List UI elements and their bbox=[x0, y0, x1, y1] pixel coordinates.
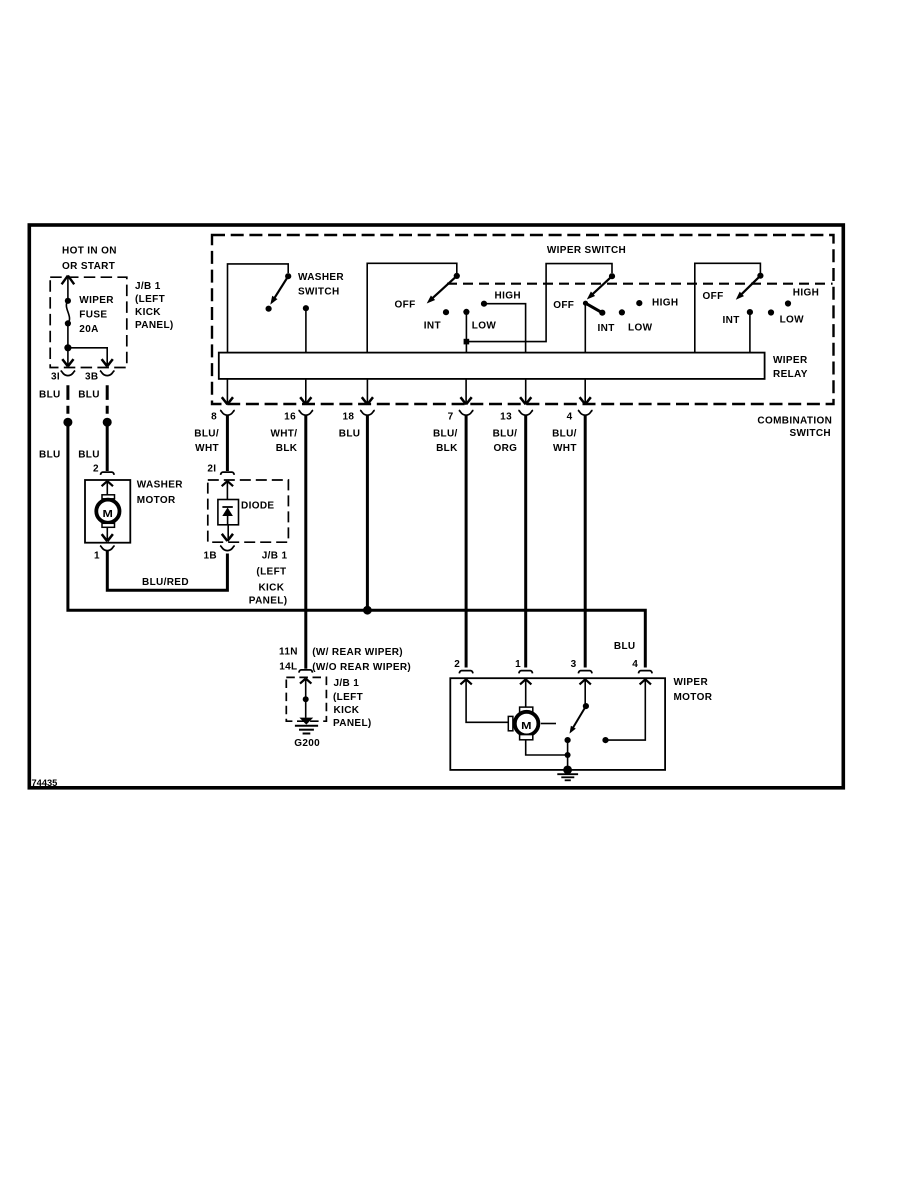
contact HIGH (switch 2) bbox=[785, 300, 791, 306]
svg-text:WASHER: WASHER bbox=[298, 272, 344, 283]
park switch common contact bbox=[583, 703, 589, 709]
connector diode 1B bbox=[220, 546, 235, 551]
svg-text:3: 3 bbox=[571, 659, 577, 670]
arrow down washer motor pin 1 exit bbox=[102, 534, 113, 541]
diode J/B 1 dashed box bbox=[208, 480, 289, 542]
svg-text:MOTOR: MOTOR bbox=[674, 692, 713, 703]
svg-text:18: 18 bbox=[342, 412, 354, 423]
svg-text:74435: 74435 bbox=[32, 778, 58, 788]
svg-text:WHT: WHT bbox=[553, 443, 577, 454]
svg-text:3I: 3I bbox=[51, 371, 60, 382]
svg-text:PANEL): PANEL) bbox=[333, 718, 372, 729]
arrow down pin 16 bbox=[300, 397, 311, 404]
wiper switch 2 blade bbox=[736, 276, 761, 300]
arrow up washer motor pin 2 entry bbox=[102, 481, 113, 486]
washer switch frame wire bbox=[228, 264, 289, 353]
svg-text:SWITCH: SWITCH bbox=[789, 428, 831, 439]
wiper switch 2 common contact bbox=[757, 273, 763, 279]
arrow up wiper motor pin 4 bbox=[640, 679, 651, 684]
contact INT (switch 1) bbox=[443, 309, 449, 315]
WIPER RELAY label bbox=[773, 355, 808, 380]
wire inside washer motor top bbox=[106, 481, 108, 495]
fuse WIPER FUSE 20A bbox=[65, 295, 114, 335]
motor shaft link to park switch bbox=[541, 723, 556, 725]
arrow down pin 4 bbox=[580, 397, 591, 404]
svg-text:INT: INT bbox=[598, 323, 615, 334]
svg-text:J/B 1: J/B 1 bbox=[262, 551, 288, 562]
svg-text:OFF: OFF bbox=[395, 300, 416, 311]
wire pin 4 to park contact B bbox=[606, 679, 646, 740]
svg-text:8: 8 bbox=[211, 412, 217, 423]
COMBINATION SWITCH label bbox=[757, 416, 832, 440]
svg-text:PANEL): PANEL) bbox=[135, 320, 174, 331]
wire pin 1 to motor top brush bbox=[525, 679, 527, 707]
diode symbol bbox=[222, 507, 233, 525]
svg-text:WHT/: WHT/ bbox=[270, 428, 297, 439]
wire inside washer motor bottom bbox=[106, 527, 108, 540]
connector pin 18 bbox=[360, 410, 375, 415]
svg-text:KICK: KICK bbox=[135, 307, 161, 318]
WIPER MOTOR label bbox=[674, 677, 713, 703]
svg-text:OFF: OFF bbox=[703, 291, 724, 302]
svg-text:OFF: OFF bbox=[553, 300, 574, 311]
connector wiper motor pin 3 bbox=[578, 671, 592, 674]
contact HIGH (switch 1) bbox=[481, 301, 487, 307]
svg-text:BLU/: BLU/ bbox=[552, 428, 577, 439]
arrow up to HOT feed bbox=[62, 276, 75, 285]
contact INT (relay switch) bbox=[599, 310, 605, 316]
wire pin 4 BLU/WHT down to wiper motor 3 bbox=[584, 415, 587, 668]
node LOW junction bbox=[464, 339, 470, 345]
svg-text:BLU: BLU bbox=[78, 389, 100, 400]
connector pin 13 bbox=[518, 410, 533, 415]
wire fuse to node split bbox=[67, 323, 69, 366]
wiper motor M2 bottom brush bbox=[520, 735, 533, 740]
node BLU feed junction bbox=[363, 606, 372, 615]
washer motor box bbox=[85, 480, 130, 543]
arrow down pin 18 bbox=[362, 397, 373, 404]
svg-text:LOW: LOW bbox=[472, 321, 497, 332]
svg-text:BLK: BLK bbox=[276, 443, 298, 454]
svg-text:HIGH: HIGH bbox=[495, 291, 521, 302]
wiper switch 1 blade bbox=[427, 276, 457, 304]
wiper switch 2 frame wire bbox=[695, 263, 761, 352]
svg-text:WIPER SWITCH: WIPER SWITCH bbox=[547, 245, 626, 256]
J/B 1 label (ground) bbox=[333, 678, 372, 729]
washer switch common contact bbox=[285, 273, 291, 279]
svg-text:KICK: KICK bbox=[334, 705, 360, 716]
wire pin 7 BLU/BLK down to wiper motor 2 bbox=[465, 415, 468, 668]
relay int switch pivot blade to INT bbox=[583, 301, 602, 313]
svg-text:4: 4 bbox=[567, 412, 573, 423]
node ground bus junction bbox=[565, 752, 571, 758]
svg-text:RELAY: RELAY bbox=[773, 369, 808, 380]
wire BLU/RED washer motor to diode bbox=[107, 550, 227, 590]
svg-text:BLU/: BLU/ bbox=[194, 428, 219, 439]
motor M2 armature bbox=[515, 712, 539, 736]
svg-text:WIPER: WIPER bbox=[773, 355, 808, 366]
arrow down pin 3B bbox=[102, 359, 113, 366]
wiper switch 1 frame wire bbox=[367, 263, 457, 352]
svg-text:16: 16 bbox=[284, 412, 296, 423]
svg-text:WASHER: WASHER bbox=[137, 480, 183, 491]
splice node left bbox=[63, 418, 72, 427]
wire LOW contact to relay bar bbox=[465, 312, 467, 353]
svg-text:DIODE: DIODE bbox=[241, 500, 274, 511]
contact LOW (switch 1) bbox=[463, 309, 469, 315]
washer switch blade bbox=[270, 276, 288, 304]
svg-text:OR START: OR START bbox=[62, 261, 115, 272]
wire 3I dashed drop bbox=[66, 385, 69, 414]
node HOT IN ON label bbox=[62, 246, 117, 272]
svg-text:BLU/: BLU/ bbox=[433, 428, 458, 439]
wiper switch 1 common contact bbox=[454, 273, 460, 279]
arrow down diode 1B exit bbox=[222, 534, 233, 541]
connector wiper motor pin 4 bbox=[639, 671, 653, 674]
arrow up wiper motor pin 2 bbox=[460, 679, 471, 684]
svg-text:BLU: BLU bbox=[78, 449, 100, 460]
svg-text:SWITCH: SWITCH bbox=[298, 287, 340, 298]
wire pin 2 to motor left brush bbox=[466, 679, 508, 722]
svg-text:(LEFT: (LEFT bbox=[256, 566, 286, 577]
svg-text:J/B 1: J/B 1 bbox=[334, 678, 360, 689]
connector diode 2I bbox=[221, 472, 235, 475]
svg-text:BLU: BLU bbox=[339, 428, 361, 439]
washer switch output contact bbox=[303, 305, 309, 311]
wire washer switch contact to relay bar bbox=[305, 308, 307, 352]
wire relay int switch to LOW junction bbox=[466, 264, 612, 342]
wire label BLU/BLK (pin 7) bbox=[433, 428, 458, 454]
wire pin 13 BLU/ORG down to wiper motor 1 bbox=[524, 415, 527, 668]
svg-text:FUSE: FUSE bbox=[79, 310, 107, 321]
contact HIGH (relay switch) bbox=[636, 300, 642, 306]
relay bar output stems and arrows: pins 8,16,18,7,13,4 bbox=[227, 379, 585, 404]
wiper relay bar bbox=[219, 353, 765, 379]
svg-text:(LEFT: (LEFT bbox=[135, 294, 165, 305]
svg-text:(LEFT: (LEFT bbox=[333, 692, 363, 703]
washer switch off contact bbox=[266, 306, 272, 312]
svg-text:3B: 3B bbox=[85, 371, 98, 382]
svg-text:LOW: LOW bbox=[628, 323, 653, 334]
connector pin 3I bbox=[61, 371, 76, 376]
svg-text:ORG: ORG bbox=[493, 443, 517, 454]
svg-text:PANEL): PANEL) bbox=[249, 596, 288, 607]
wire INT contact to relay bar bbox=[749, 312, 751, 353]
wire motor bottom brush to ground bus bbox=[526, 740, 568, 755]
WASHER MOTOR label bbox=[137, 480, 183, 506]
wire inside ground box bbox=[305, 678, 307, 717]
connector wiper motor pin 1 bbox=[519, 671, 533, 674]
svg-text:J/B 1: J/B 1 bbox=[135, 281, 161, 292]
arrow up diode 2I entry bbox=[222, 481, 233, 486]
svg-text:14L: 14L bbox=[279, 662, 297, 673]
wire fuse feed bbox=[67, 278, 69, 301]
wire park contact A to case ground bbox=[567, 740, 569, 770]
svg-text:1: 1 bbox=[515, 659, 521, 670]
junction block J/B 1 (left kick panel) dashed box bbox=[50, 277, 127, 367]
wire label WHT/BLK (pin 16) bbox=[270, 428, 297, 454]
connector pin 8 bbox=[220, 410, 235, 415]
ground G200 bbox=[295, 718, 318, 734]
node ground junction bbox=[303, 696, 309, 702]
wire HIGH contact to relay bar bbox=[484, 304, 526, 353]
wiper motor case ground bbox=[557, 766, 578, 781]
svg-text:2: 2 bbox=[454, 659, 460, 670]
connector pin 7 bbox=[459, 410, 474, 415]
wiper switch inner dashed line bbox=[447, 283, 833, 285]
wire split to 3B bbox=[68, 348, 107, 366]
node fuse output split bbox=[64, 344, 71, 351]
svg-text:BLU/RED: BLU/RED bbox=[142, 577, 189, 588]
arrow down pin 8 bbox=[222, 397, 233, 404]
park switch blade bbox=[570, 706, 586, 734]
svg-text:M: M bbox=[521, 721, 532, 732]
svg-text:LOW: LOW bbox=[780, 315, 805, 326]
connector 14L bbox=[299, 670, 313, 673]
contact LOW (switch 2) bbox=[768, 309, 774, 315]
svg-text:4: 4 bbox=[632, 659, 638, 670]
J/B 1 label bbox=[135, 281, 174, 331]
connector pin 4 bbox=[578, 410, 593, 415]
svg-text:BLU: BLU bbox=[39, 389, 61, 400]
svg-text:7: 7 bbox=[448, 412, 454, 423]
wire BLU main feed down-right to wiper motor bbox=[68, 426, 645, 668]
arrow down pin 7 bbox=[461, 397, 472, 404]
connector washer motor pin 2 bbox=[101, 472, 115, 475]
connector wiper motor pin 2 bbox=[459, 671, 473, 674]
contact LOW (relay switch) bbox=[619, 309, 625, 315]
J/B 1 label (diode) bbox=[249, 551, 288, 607]
wire inside diode box exit bbox=[227, 525, 229, 541]
svg-text:BLU/: BLU/ bbox=[493, 428, 518, 439]
wire inside to diode bbox=[226, 481, 228, 500]
svg-text:HIGH: HIGH bbox=[652, 298, 678, 309]
wire pin 18 BLU down to main feed bbox=[366, 415, 369, 611]
washer motor M1 brush top bbox=[102, 495, 115, 499]
wire relay switch pivot to relay bar bbox=[584, 303, 586, 352]
svg-text:MOTOR: MOTOR bbox=[137, 495, 176, 506]
wire pin 8 to diode connector 2I bbox=[226, 415, 229, 471]
svg-text:INT: INT bbox=[424, 321, 441, 332]
svg-text:COMBINATION: COMBINATION bbox=[757, 416, 832, 427]
svg-text:G200: G200 bbox=[294, 738, 320, 749]
arrow up wiper motor pin 3 bbox=[580, 679, 591, 684]
svg-text:20A: 20A bbox=[79, 324, 98, 335]
svg-text:11N: 11N bbox=[279, 647, 298, 658]
svg-text:2I: 2I bbox=[207, 464, 216, 475]
wire pin 16 WHT/BLK down to 14L bbox=[304, 415, 307, 669]
connector pin 16 bbox=[299, 410, 314, 415]
park switch contact A bbox=[565, 737, 571, 743]
arrow down pin 13 bbox=[520, 397, 531, 404]
svg-text:(W/ REAR WIPER): (W/ REAR WIPER) bbox=[312, 647, 403, 658]
wiper motor M2 top brush bbox=[520, 707, 533, 712]
outer border frame bbox=[29, 225, 843, 788]
washer motor M1 brush bottom bbox=[102, 523, 115, 527]
svg-text:1B: 1B bbox=[204, 551, 217, 562]
svg-text:BLU: BLU bbox=[39, 449, 61, 460]
park switch contact B bbox=[602, 737, 608, 743]
svg-text:KICK: KICK bbox=[258, 583, 284, 594]
svg-text:WIPER: WIPER bbox=[674, 677, 709, 688]
motor M1 armature bbox=[96, 500, 119, 523]
connector pin 3B bbox=[100, 371, 115, 376]
relay int switch common contact bbox=[609, 273, 615, 279]
wire pin 3 stem bbox=[584, 679, 586, 706]
wiper motor box bbox=[450, 678, 665, 770]
arrow up wiper motor pin 1 bbox=[520, 679, 531, 684]
svg-text:INT: INT bbox=[723, 315, 740, 326]
svg-text:M: M bbox=[103, 509, 114, 520]
diode box bbox=[218, 500, 239, 525]
relay int switch blade bbox=[587, 276, 612, 299]
wire label BLU/WHT (pin 8) bbox=[194, 428, 219, 454]
svg-text:1: 1 bbox=[94, 551, 100, 562]
arrow down pin 3I bbox=[62, 359, 73, 366]
wire label BLU/ORG (pin 13) bbox=[493, 428, 518, 454]
wire BLU to washer motor pin 2 bbox=[106, 426, 109, 471]
combination switch dashed box bbox=[212, 235, 834, 404]
wire 3B dashed drop bbox=[106, 385, 109, 414]
splice node right bbox=[103, 418, 112, 427]
arrow up ground entry bbox=[300, 679, 311, 684]
ground J/B 1 dashed box bbox=[286, 677, 326, 721]
svg-text:13: 13 bbox=[500, 412, 512, 423]
WASHER SWITCH label bbox=[298, 272, 344, 298]
svg-text:HIGH: HIGH bbox=[793, 288, 819, 299]
svg-text:HOT IN ON: HOT IN ON bbox=[62, 246, 117, 257]
wiper motor M2 left brush bbox=[508, 716, 513, 730]
connector washer motor pin 1 bbox=[100, 546, 115, 551]
svg-text:BLU: BLU bbox=[614, 641, 636, 652]
wire label BLU/WHT (pin 4) bbox=[552, 428, 577, 454]
svg-text:2: 2 bbox=[93, 464, 99, 475]
svg-text:WHT: WHT bbox=[195, 443, 219, 454]
svg-text:(W/O REAR WIPER): (W/O REAR WIPER) bbox=[312, 662, 411, 673]
contact INT (switch 2) bbox=[747, 309, 753, 315]
svg-text:BLK: BLK bbox=[436, 443, 458, 454]
svg-text:WIPER: WIPER bbox=[79, 295, 114, 306]
